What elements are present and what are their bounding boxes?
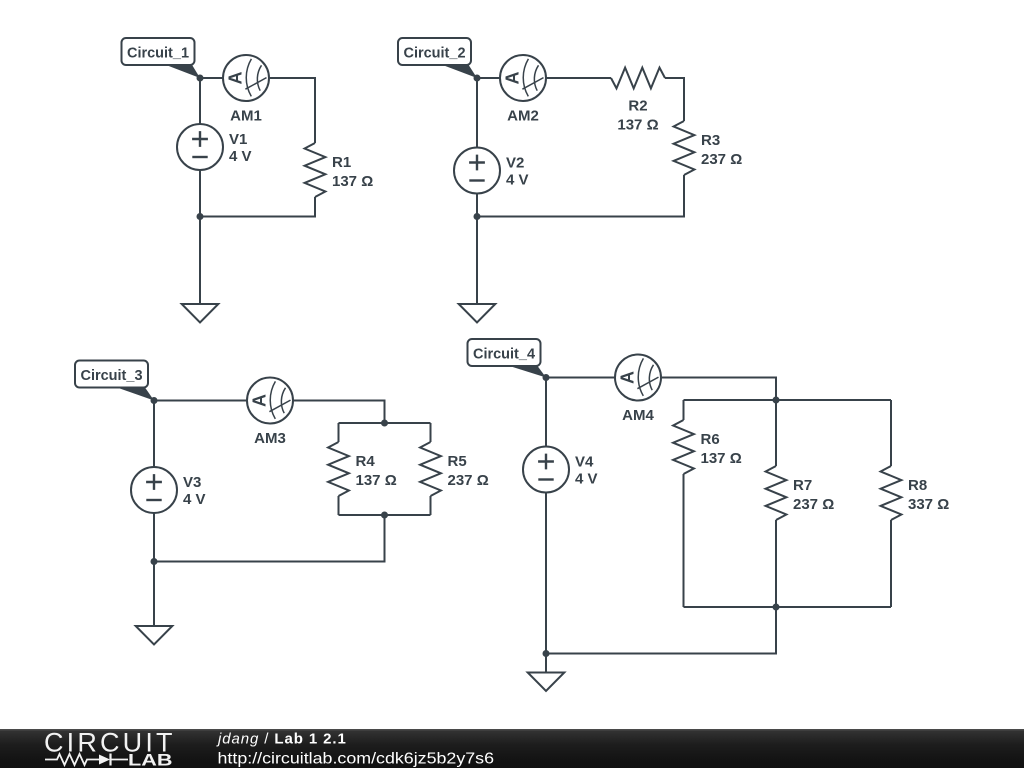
wire: [546, 77, 611, 79]
wire top rail circuit 4: [684, 399, 892, 401]
svg-text:237 Ω: 237 Ω: [701, 151, 742, 168]
svg-text:http://circuitlab.com/cdk6jz5b: http://circuitlab.com/cdk6jz5b2y7s6: [218, 751, 495, 768]
svg-text:R5: R5: [448, 453, 467, 470]
wire: [154, 400, 247, 402]
node bottom circuit 3: [151, 558, 158, 565]
svg-text:137 Ω: 137 Ω: [701, 450, 742, 467]
resistor R6: [673, 400, 742, 607]
svg-text:4 V: 4 V: [575, 471, 598, 488]
wire: [545, 378, 547, 447]
svg-text:R8: R8: [908, 477, 927, 494]
svg-text:137 Ω: 137 Ω: [332, 173, 373, 190]
svg-text:R6: R6: [701, 431, 720, 448]
wire: [476, 217, 478, 305]
wire: [199, 217, 201, 305]
svg-text:V3: V3: [183, 474, 201, 491]
svg-text:V1: V1: [229, 131, 247, 148]
label Circuit_3: [75, 361, 154, 401]
wire: [199, 78, 201, 124]
voltage source V3: [131, 467, 206, 513]
node parallel top circuit 4: [773, 397, 780, 404]
wire top rail: [339, 422, 431, 424]
svg-text:R4: R4: [356, 453, 376, 470]
ground circuit 1: [182, 304, 219, 323]
svg-text:AM2: AM2: [507, 108, 539, 125]
svg-text:137 Ω: 137 Ω: [617, 117, 658, 134]
footer bar: [0, 729, 1024, 768]
node bottom circuit 1: [197, 213, 204, 220]
resistor R2: [611, 68, 665, 134]
node top circuit 4: [543, 374, 550, 381]
svg-text:R1: R1: [332, 154, 351, 171]
svg-text:Circuit_3: Circuit_3: [80, 368, 142, 384]
logo schematic motif (wire, resistor, diode): [45, 754, 128, 766]
node parallel bottom circuit 4: [773, 604, 780, 611]
ground circuit 2: [459, 304, 496, 323]
resistor R3: [674, 121, 743, 175]
resistor R5: [420, 423, 489, 515]
svg-text:237 Ω: 237 Ω: [448, 472, 489, 489]
voltage source V1: [177, 124, 252, 170]
svg-text:AM3: AM3: [254, 430, 286, 447]
wire: [476, 78, 478, 148]
label Circuit_2: [398, 38, 477, 78]
wire: [153, 401, 155, 468]
wire: [153, 513, 155, 562]
svg-text:137 Ω: 137 Ω: [356, 472, 397, 489]
ammeter AM3: [247, 378, 293, 448]
wire: [477, 77, 500, 79]
ground circuit 3: [136, 626, 173, 645]
resistor R8: [881, 400, 950, 607]
svg-text:V4: V4: [575, 454, 594, 471]
svg-text:Circuit_1: Circuit_1: [127, 46, 189, 62]
node top circuit 1: [197, 75, 204, 82]
wire: [476, 194, 478, 217]
wire: [293, 401, 385, 424]
svg-text:4 V: 4 V: [506, 172, 529, 189]
node parallel top: [381, 420, 388, 427]
wire: [200, 197, 315, 217]
wire: [200, 77, 223, 79]
voltage source V4: [523, 447, 598, 493]
node bottom circuit 2: [474, 213, 481, 220]
wire: [546, 377, 615, 379]
wire: [545, 654, 547, 673]
svg-text:237 Ω: 237 Ω: [793, 496, 834, 513]
wire: [546, 607, 776, 654]
wire: [269, 78, 315, 143]
svg-text:V2: V2: [506, 155, 524, 172]
resistor R1: [305, 143, 374, 197]
label Circuit_4: [468, 339, 547, 378]
voltage source V2: [454, 148, 529, 194]
wire: [661, 378, 776, 401]
node bottom circuit 4: [543, 650, 550, 657]
wire: [199, 170, 201, 217]
svg-text:R7: R7: [793, 477, 812, 494]
svg-text:Circuit_4: Circuit_4: [473, 347, 535, 363]
svg-text:LAB: LAB: [128, 751, 173, 768]
wire bottom rail circuit 4: [684, 606, 892, 608]
svg-text:R2: R2: [628, 98, 647, 115]
resistor R7: [766, 400, 835, 607]
svg-text:AM4: AM4: [622, 407, 654, 424]
svg-text:AM1: AM1: [230, 108, 262, 125]
wire: [545, 493, 547, 654]
node top circuit 3: [151, 397, 158, 404]
ammeter AM1: [223, 55, 269, 125]
label Circuit_1: [122, 38, 201, 78]
resistor R4: [328, 423, 397, 515]
wire: [153, 562, 155, 627]
svg-text:R3: R3: [701, 132, 720, 149]
svg-text:4 V: 4 V: [229, 148, 252, 165]
ground circuit 4: [528, 673, 565, 692]
svg-text:337 Ω: 337 Ω: [908, 496, 949, 513]
svg-text:jdang / Lab 1 2.1: jdang / Lab 1 2.1: [216, 731, 347, 748]
svg-text:4 V: 4 V: [183, 491, 206, 508]
wire: [477, 175, 684, 217]
node parallel bottom: [381, 512, 388, 519]
ammeter AM2: [500, 55, 546, 125]
wire: [154, 515, 385, 562]
svg-text:Circuit_2: Circuit_2: [403, 46, 465, 62]
wire bottom rail: [339, 514, 431, 516]
wire: [665, 78, 684, 121]
node top circuit 2: [474, 75, 481, 82]
ammeter AM4: [615, 355, 661, 425]
